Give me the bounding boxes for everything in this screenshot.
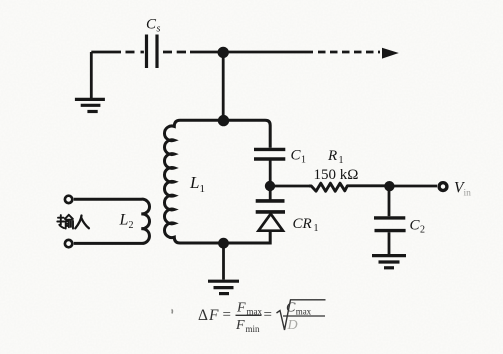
svg-text:2: 2 [420, 225, 425, 236]
svg-text:1: 1 [301, 155, 306, 166]
svg-text:Δ: Δ [198, 307, 208, 324]
svg-text:F: F [236, 301, 246, 316]
svg-text:150 kΩ: 150 kΩ [314, 167, 359, 183]
svg-text:min: min [246, 324, 261, 334]
svg-text:C: C [146, 17, 157, 33]
svg-text:max: max [296, 307, 312, 317]
svg-text:F: F [208, 307, 219, 324]
svg-text:D: D [287, 318, 298, 333]
svg-text:F: F [235, 318, 245, 333]
svg-text:in: in [464, 189, 472, 199]
svg-text:R: R [327, 148, 337, 164]
svg-text:C: C [410, 218, 421, 234]
svg-text:=: = [223, 307, 231, 323]
svg-text:L: L [119, 212, 129, 229]
svg-text:s: s [157, 24, 161, 35]
svg-text:2: 2 [129, 220, 134, 231]
svg-text:CR: CR [293, 216, 312, 232]
svg-text:=: = [264, 307, 272, 323]
svg-text:1: 1 [339, 155, 344, 166]
svg-text:L: L [189, 173, 199, 192]
svg-text:1: 1 [314, 223, 319, 234]
svg-text:C: C [291, 148, 302, 164]
svg-text:1: 1 [200, 183, 206, 195]
